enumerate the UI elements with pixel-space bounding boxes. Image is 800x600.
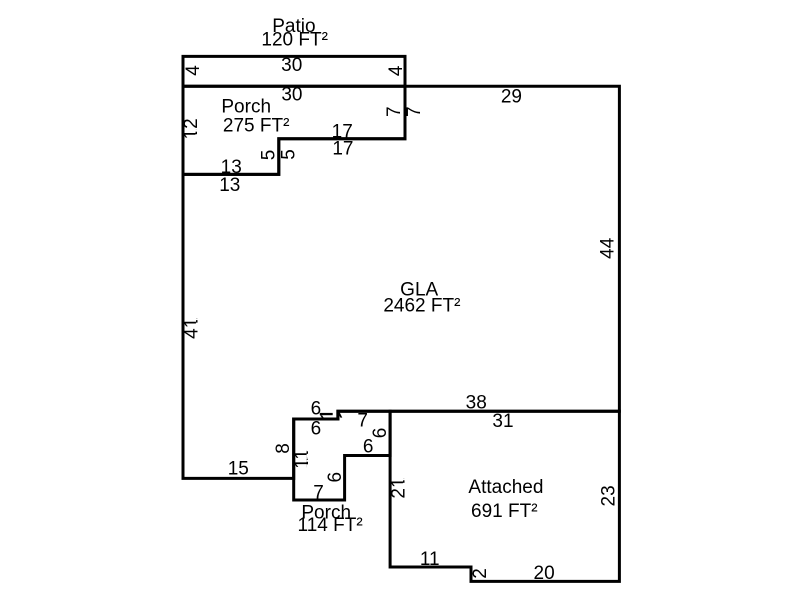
- svg-text:21: 21: [388, 477, 409, 498]
- svg-text:2462 FT²: 2462 FT²: [383, 295, 460, 316]
- svg-text:23: 23: [598, 485, 619, 506]
- svg-text:38: 38: [466, 392, 487, 413]
- svg-text:20: 20: [534, 563, 555, 584]
- svg-text:6: 6: [311, 399, 322, 420]
- svg-text:12: 12: [181, 118, 202, 139]
- svg-text:7: 7: [357, 410, 368, 431]
- svg-text:44: 44: [598, 237, 619, 259]
- GLA outline: [183, 86, 619, 478]
- svg-text:6: 6: [311, 419, 322, 440]
- svg-text:114 FT²: 114 FT²: [298, 515, 363, 536]
- svg-text:30: 30: [281, 84, 302, 105]
- svg-text:6: 6: [325, 472, 346, 483]
- porch 275 outline: [183, 86, 405, 174]
- svg-text:13: 13: [219, 175, 240, 196]
- svg-text:691 FT²: 691 FT²: [471, 501, 538, 522]
- svg-text:11: 11: [292, 449, 313, 469]
- svg-text:275 FT²: 275 FT²: [223, 116, 290, 137]
- svg-text:11: 11: [420, 549, 440, 570]
- attached garage outline: [390, 411, 619, 581]
- svg-text:Attached: Attached: [468, 477, 543, 498]
- dim 1 right of step: [337, 410, 349, 417]
- svg-text:7: 7: [313, 482, 324, 503]
- svg-text:41: 41: [181, 318, 202, 339]
- serif patches (match Arial-style 1): [195, 130, 404, 487]
- patio outline: [183, 56, 405, 86]
- svg-text:8: 8: [273, 443, 294, 454]
- svg-text:15: 15: [228, 459, 249, 480]
- svg-text:5: 5: [278, 149, 299, 160]
- svg-text:7: 7: [384, 106, 405, 117]
- svg-text:5: 5: [258, 150, 279, 161]
- svg-text:4: 4: [386, 65, 407, 76]
- svg-text:4: 4: [183, 65, 204, 76]
- svg-text:7: 7: [404, 106, 425, 117]
- svg-text:31: 31: [492, 411, 513, 432]
- dim 1 left of step: [320, 413, 333, 419]
- svg-text:30: 30: [281, 55, 302, 76]
- svg-text:120 FT²: 120 FT²: [261, 29, 328, 50]
- svg-text:2: 2: [470, 568, 491, 579]
- svg-text:29: 29: [501, 86, 522, 107]
- svg-text:17: 17: [332, 139, 353, 160]
- svg-text:6: 6: [363, 436, 374, 457]
- porch 114 outline: [294, 411, 390, 500]
